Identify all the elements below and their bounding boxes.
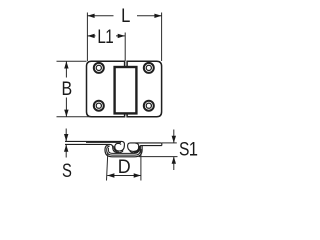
arrowhead S1 down xyxy=(172,136,176,143)
wrap outer contour xyxy=(105,145,142,157)
section right plate bottom surface with outer curl arc xyxy=(130,146,162,153)
wrap inner contour xyxy=(108,146,138,153)
D extension line right xyxy=(140,149,142,181)
section left plate inner edge line xyxy=(86,142,121,144)
D extension line left xyxy=(107,153,108,181)
screw hole top-left inner circle xyxy=(96,65,101,70)
svg-text:S: S xyxy=(179,138,189,160)
dimension line L1 xyxy=(87,35,125,37)
arrowhead L right xyxy=(154,14,161,18)
svg-text:D: D xyxy=(118,156,131,178)
arrowhead D left xyxy=(107,173,114,177)
arrowhead D right xyxy=(134,173,141,177)
section right plate top surface with curl loop (slot right wall) xyxy=(128,143,162,152)
arrowhead B top xyxy=(64,61,68,68)
section outer wrap (triple concentric line U) xyxy=(105,145,142,157)
screw hole bottom-right outer ring xyxy=(144,101,154,111)
screw hole bottom-left outer ring xyxy=(94,101,104,111)
screw hole top-right outer ring xyxy=(144,63,154,73)
svg-text:L: L xyxy=(121,5,130,27)
hinge left leaf outline xyxy=(87,61,125,117)
section left curl middle spiral arc xyxy=(114,146,119,152)
hinge right leaf outline xyxy=(127,61,162,117)
S1 extension line top xyxy=(162,142,177,144)
dimension line D xyxy=(107,175,141,177)
B extension line top xyxy=(57,60,87,62)
svg-text:B: B xyxy=(62,78,73,100)
arrowhead S1 up xyxy=(172,157,176,164)
arrowhead L1 right xyxy=(118,34,125,38)
svg-text:1: 1 xyxy=(105,25,113,47)
section right curl middle spiral arc xyxy=(134,146,139,152)
arrowhead L1 left xyxy=(87,34,94,38)
svg-text:1: 1 xyxy=(189,138,198,160)
screw hole bottom-left inner circle xyxy=(96,103,101,108)
B extension line bottom xyxy=(57,116,91,118)
section left plate top surface with curl loop xyxy=(65,141,124,151)
screw hole top-left outer ring xyxy=(94,63,104,73)
arrowhead S up xyxy=(64,145,68,152)
extension line right (hinge right edge, up to L) xyxy=(161,13,163,62)
arrowhead S down xyxy=(64,134,68,141)
svg-text:S: S xyxy=(62,159,72,182)
screw hole top-right inner circle xyxy=(146,65,151,70)
knuckle rectangle xyxy=(115,67,137,113)
arrowhead L left xyxy=(87,14,94,18)
S1 dimension lines xyxy=(173,130,175,171)
arrowhead B bottom xyxy=(64,110,68,117)
extension line center (knuckle centerline, up to L1) xyxy=(124,33,126,62)
S dimension lines xyxy=(65,129,67,158)
extension line left (hinge left edge, up to L/L1) xyxy=(86,13,88,62)
wrap middle contour xyxy=(107,146,141,155)
S1 extension line bottom xyxy=(139,156,178,158)
dimension line B xyxy=(65,61,67,117)
screw hole bottom-right inner circle xyxy=(146,103,151,108)
section right plate end edge xyxy=(161,143,163,146)
section left plate bottom surface with outer curl arc xyxy=(65,144,123,152)
dimension line L xyxy=(87,15,161,17)
